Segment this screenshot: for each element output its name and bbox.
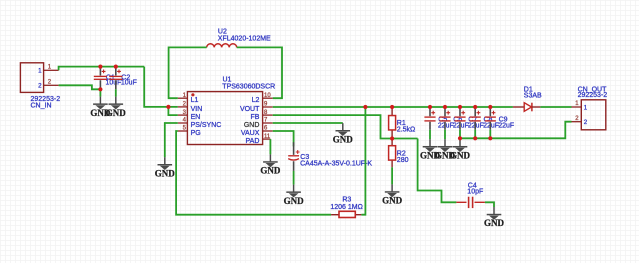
U1 pin 4 PS/SYNC bbox=[178, 122, 188, 124]
ground below R2 bbox=[382, 184, 403, 205]
junction node 15 bbox=[488, 136, 492, 140]
wire PAD to ground bbox=[269, 139, 271, 154]
svg-text:11: 11 bbox=[264, 134, 271, 140]
svg-text:GND: GND bbox=[484, 218, 505, 228]
svg-text:VAUX: VAUX bbox=[241, 130, 260, 137]
resistor R1 2.5k bbox=[389, 107, 396, 139]
wire GND pin7 bbox=[273, 122, 343, 124]
wire C2 bottom to ground bbox=[115, 89, 117, 96]
capacitor C9 22uF bbox=[485, 107, 514, 130]
svg-text:22uF: 22uF bbox=[498, 123, 514, 130]
CN_OUT pin 1 stub bbox=[572, 106, 582, 108]
svg-text:GND: GND bbox=[155, 168, 176, 178]
wire C4 to ground bbox=[485, 202, 494, 207]
wire inductor to L2 pin bbox=[237, 47, 282, 98]
junction node 1 bbox=[98, 65, 102, 69]
svg-text:L2: L2 bbox=[252, 97, 260, 104]
wire C1 bottom to ground bbox=[99, 89, 101, 96]
svg-text:S3AB: S3AB bbox=[524, 92, 542, 99]
wire CN_IN pin2 to C1 bottom bbox=[59, 85, 101, 89]
wire FB node to C4 bbox=[418, 139, 457, 203]
U1 pin 10 L2 bbox=[263, 97, 273, 99]
wire VOUT rail bbox=[273, 106, 513, 108]
capacitor C3 0.1uF tantalum bbox=[288, 142, 372, 171]
U1 pin 2 VIN bbox=[178, 106, 188, 108]
ground below C2 bbox=[106, 97, 127, 118]
U1 pin 8 FB bbox=[263, 114, 273, 116]
wire PG to R3 bbox=[176, 131, 331, 215]
svg-text:CA45A-A-35V-0.1UF-K: CA45A-A-35V-0.1UF-K bbox=[300, 161, 372, 168]
svg-text:GND: GND bbox=[382, 196, 403, 206]
svg-text:R3: R3 bbox=[342, 196, 351, 203]
svg-text:1206 1MΩ: 1206 1MΩ bbox=[330, 204, 362, 211]
CN_OUT pin 2 stub bbox=[572, 121, 582, 123]
ground below C7 bbox=[450, 139, 471, 160]
svg-text:PAD: PAD bbox=[246, 138, 260, 145]
junction node 5 bbox=[363, 105, 367, 109]
U1 pin 6 VAUX bbox=[263, 130, 273, 132]
wire VIN junction to EN bbox=[168, 107, 177, 115]
wire C7 to ground bbox=[459, 130, 461, 139]
svg-text:22uF: 22uF bbox=[453, 123, 469, 130]
capacitor C5 22uF bbox=[424, 107, 453, 130]
U1 pin 3 EN bbox=[178, 114, 188, 116]
svg-text:10pF: 10pF bbox=[467, 189, 483, 196]
svg-text:PG: PG bbox=[191, 130, 201, 137]
diode D1 S3AB bbox=[513, 87, 542, 112]
ground below C6 bbox=[435, 139, 456, 160]
junction node 4 bbox=[166, 105, 170, 109]
svg-text:10uF: 10uF bbox=[121, 80, 137, 87]
connector CN_IN 292253-2 bbox=[20, 63, 60, 110]
wire output return rail bbox=[460, 122, 572, 139]
svg-text:2: 2 bbox=[584, 119, 588, 126]
wire FB to divider bbox=[273, 115, 418, 138]
wire PS/SYNC to ground bbox=[165, 123, 178, 157]
junction node 7 bbox=[428, 105, 432, 109]
svg-text:10uF: 10uF bbox=[106, 80, 122, 87]
svg-text:280: 280 bbox=[397, 157, 409, 164]
CN_IN pin 2 stub bbox=[44, 84, 59, 86]
U1 pin 7 GND bbox=[263, 122, 273, 124]
svg-text:GND: GND bbox=[333, 134, 354, 144]
capacitor C4 10pF bbox=[456, 182, 485, 208]
svg-text:1: 1 bbox=[584, 104, 588, 111]
junction node 12 bbox=[390, 136, 394, 140]
svg-text:FB: FB bbox=[250, 114, 259, 121]
junction node 8 bbox=[443, 105, 447, 109]
svg-text:GND: GND bbox=[260, 166, 281, 176]
wire CN_IN pin1 to input rail bbox=[59, 67, 145, 71]
svg-text:CN_IN: CN_IN bbox=[31, 102, 52, 109]
connector CN_OUT 292253-2 bbox=[578, 86, 608, 129]
resistor R3 1M bbox=[330, 196, 362, 217]
junction node 11 bbox=[488, 105, 492, 109]
svg-text:PS/SYNC: PS/SYNC bbox=[191, 122, 222, 129]
svg-text:L1: L1 bbox=[191, 97, 199, 104]
junction node 13 bbox=[458, 136, 462, 140]
capacitor C2 10uF bbox=[109, 67, 137, 90]
svg-text:22uF: 22uF bbox=[438, 123, 454, 130]
svg-text:GND: GND bbox=[244, 122, 260, 129]
wire C3 bottom to ground bbox=[293, 171, 295, 185]
junction node 3 bbox=[98, 87, 102, 91]
svg-text:EN: EN bbox=[191, 114, 201, 121]
ground below PS/SYNC bbox=[155, 157, 176, 178]
ground below C4 bbox=[484, 207, 505, 228]
junction node 9 bbox=[458, 105, 462, 109]
U1 pin 9 VOUT bbox=[263, 106, 273, 108]
svg-text:2: 2 bbox=[38, 83, 42, 90]
svg-text:10: 10 bbox=[264, 93, 271, 99]
wire C6 to ground bbox=[444, 130, 446, 139]
resistor R2 280 bbox=[389, 139, 396, 168]
ground below C1 bbox=[90, 97, 111, 118]
junction node 6 bbox=[390, 105, 394, 109]
wire L1 pin to inductor bbox=[169, 47, 207, 98]
capacitor C7 22uF bbox=[454, 107, 483, 130]
wire C5 to ground bbox=[429, 130, 431, 139]
svg-text:292253-2: 292253-2 bbox=[578, 92, 608, 99]
svg-text:VIN: VIN bbox=[191, 106, 203, 113]
svg-text:GND: GND bbox=[284, 196, 305, 206]
junction node 2 bbox=[114, 65, 118, 69]
capacitor C1 10uF bbox=[94, 67, 122, 90]
wire VAUX to C3 bbox=[273, 131, 294, 146]
wire C8 to output return rail bbox=[474, 130, 476, 139]
svg-text:GND: GND bbox=[450, 150, 471, 160]
svg-text:1: 1 bbox=[38, 68, 42, 75]
U1 pin 11 PAD bbox=[263, 138, 271, 140]
op-amp U1 TPS63060DSCR body bbox=[187, 77, 275, 145]
wire R2 to ground bbox=[391, 167, 393, 184]
inductor U2 XFL4020-102ME bbox=[207, 29, 271, 48]
CN_IN pin 1 stub bbox=[44, 69, 59, 71]
ground below C3 bbox=[284, 185, 305, 206]
svg-text:2.5kΩ: 2.5kΩ bbox=[397, 126, 415, 133]
ground below C5 bbox=[420, 139, 441, 160]
svg-text:XFL4020-102ME: XFL4020-102ME bbox=[218, 36, 271, 43]
U1 pin 1 L1 bbox=[178, 97, 188, 99]
wire D1 to CN_OUT pin1 bbox=[540, 106, 571, 108]
svg-text:VOUT: VOUT bbox=[240, 106, 260, 113]
svg-text:U2: U2 bbox=[218, 29, 227, 36]
capacitor C8 22uF bbox=[470, 107, 499, 130]
capacitor C6 22uF bbox=[439, 107, 468, 130]
junction node 10 bbox=[473, 105, 477, 109]
wire C9 to output return rail bbox=[489, 130, 491, 139]
svg-text:TPS63060DSCR: TPS63060DSCR bbox=[222, 83, 275, 90]
U1 pin 5 PG bbox=[178, 130, 188, 132]
ground pin 7 bbox=[333, 123, 354, 144]
ground below PAD bbox=[260, 154, 281, 175]
junction node 14 bbox=[473, 136, 477, 140]
wire input rail down to VIN bbox=[144, 67, 178, 107]
wire R3 to VOUT rail bbox=[361, 107, 365, 215]
svg-text:GND: GND bbox=[106, 108, 127, 118]
